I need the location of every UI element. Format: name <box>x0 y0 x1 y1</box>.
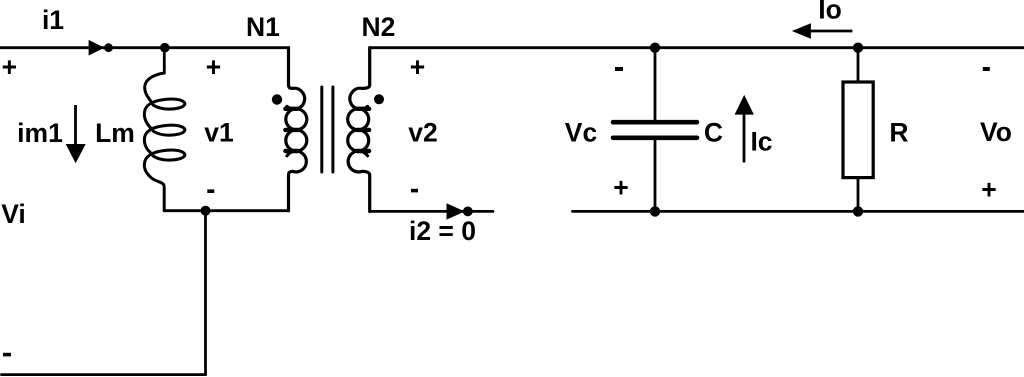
inductor Lm <box>144 73 184 211</box>
arrow im1 <box>74 105 77 148</box>
svg-text:R: R <box>889 118 908 148</box>
capacitor C top stem <box>654 48 657 121</box>
wire top-left rail <box>0 46 289 49</box>
svg-text:+: + <box>981 174 996 204</box>
svg-text:N2: N2 <box>361 12 395 42</box>
transformer primary N1 winding <box>287 48 305 110</box>
wire bottom-left rail <box>2 373 206 376</box>
svg-text:Io: Io <box>818 0 842 25</box>
svg-text:i2 = 0: i2 = 0 <box>409 216 476 246</box>
capacitor C bottom stem <box>654 140 657 212</box>
transformer core <box>320 87 323 172</box>
svg-text:+: + <box>613 173 628 203</box>
capacitor C plates <box>613 120 697 125</box>
label - cap <box>615 67 623 71</box>
svg-text:v2: v2 <box>408 118 437 148</box>
junction node R top <box>853 43 863 53</box>
wire ground vertical <box>204 211 207 375</box>
polarity dot N1 <box>272 94 282 104</box>
svg-text:+: + <box>2 52 17 82</box>
junction node ground <box>201 206 211 216</box>
arrow Io <box>810 30 852 33</box>
svg-text:Vi: Vi <box>1 199 26 229</box>
polarity dot N2 <box>374 94 384 104</box>
arrow i2 <box>447 203 465 219</box>
label - output <box>983 67 990 71</box>
label - v1 <box>207 189 214 193</box>
junction node cap bottom <box>650 206 660 216</box>
junction node cap top <box>650 43 660 53</box>
svg-text:+: + <box>206 52 221 82</box>
resistor R stems <box>857 48 860 82</box>
svg-text:Ic: Ic <box>750 127 772 157</box>
label - v2 <box>411 189 418 193</box>
wire top-right rail <box>370 46 1024 49</box>
junction node R bottom <box>853 206 863 216</box>
transformer secondary N2 winding <box>350 48 370 110</box>
arrow Ic <box>743 113 746 162</box>
wire N2 bottom to i2 <box>370 210 493 213</box>
svg-text:i1: i1 <box>42 5 64 35</box>
svg-text:v1: v1 <box>204 118 233 148</box>
wire bottom-right rail <box>573 210 1024 213</box>
svg-text:Lm: Lm <box>95 118 135 148</box>
svg-text:Vc: Vc <box>565 118 597 148</box>
svg-text:Vo: Vo <box>980 117 1012 147</box>
label - input <box>3 353 11 357</box>
svg-text:im1: im1 <box>17 118 63 148</box>
resistor R body <box>843 82 873 178</box>
svg-text:N1: N1 <box>246 12 280 42</box>
arrow i1 <box>89 40 105 56</box>
svg-text:+: + <box>410 52 425 82</box>
svg-text:C: C <box>704 118 723 148</box>
wire Lm bottom to N1 bottom <box>164 209 288 212</box>
wire Lm top stem <box>163 48 166 73</box>
junction node top i1 dot <box>160 43 170 53</box>
